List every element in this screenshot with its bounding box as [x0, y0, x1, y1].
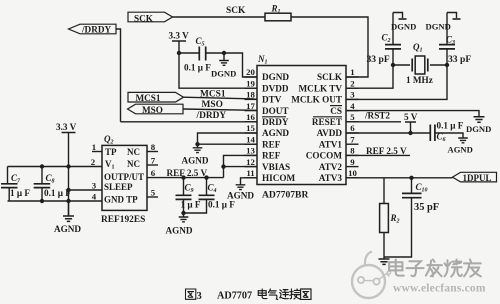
svg-text:0.1 μ F: 0.1 μ F [208, 200, 235, 210]
capacitor C8 0.1uF [34, 167, 72, 202]
pin 15 stub (left) [245, 132, 258, 134]
resistor R2 [380, 178, 400, 257]
svg-text:4: 4 [92, 192, 97, 202]
resistor R1 [265, 4, 291, 21]
capacitor C3 33pF [439, 13, 471, 66]
svg-text:16: 16 [246, 112, 255, 122]
svg-text:8: 8 [350, 146, 355, 156]
watermark logo [352, 252, 391, 299]
svg-text:18: 18 [246, 90, 255, 100]
node junction C4 top [204, 175, 208, 179]
node junction pins14/15 [195, 142, 199, 146]
svg-text:19: 19 [246, 78, 255, 88]
wire to pin20 DGND [224, 53, 257, 77]
svg-text:OUTP/UT: OUTP/UT [104, 172, 144, 182]
svg-text:10: 10 [348, 168, 357, 178]
svg-text:AGND: AGND [448, 145, 473, 155]
pin 20 stub (left) [245, 76, 258, 78]
svg-text:/DRDY: /DRDY [196, 111, 227, 121]
svg-text:6: 6 [350, 123, 355, 133]
svg-text:13: 13 [246, 146, 255, 156]
svg-text:1: 1 [92, 142, 96, 152]
svg-text:MCLK TV: MCLK TV [299, 83, 343, 93]
svg-text:SLEEP: SLEEP [104, 182, 133, 192]
ground hook DGND (right) [426, 13, 461, 32]
capacitor C2 33pF [367, 13, 402, 66]
svg-text:0.1 μ F: 0.1 μ F [184, 63, 211, 73]
ground AGND (left) [54, 201, 81, 234]
capacitor C7 1uF [1, 167, 30, 202]
svg-text:REF 2.5 V: REF 2.5 V [366, 146, 407, 156]
pin labels REF192ES [104, 147, 144, 205]
svg-text:3: 3 [92, 181, 97, 191]
svg-text:AGND: AGND [262, 128, 289, 138]
svg-text:2: 2 [350, 78, 355, 88]
wire pin10 ATV3 to flag [347, 177, 453, 179]
pin 18 stub (left) [245, 98, 258, 100]
svg-text:COCOM: COCOM [306, 151, 343, 161]
ground AGND (REF rail) [166, 213, 193, 236]
ground AGND (HICOM) [227, 185, 254, 201]
svg-text:NC: NC [127, 147, 140, 157]
svg-text:3: 3 [197, 291, 202, 302]
pin 3 stub (right) [346, 98, 359, 100]
wire /DRDY to pin16 [121, 121, 258, 123]
svg-text:7: 7 [151, 156, 156, 166]
svg-text:1: 1 [350, 67, 354, 77]
pin 6 wire OUTPUT [147, 177, 224, 179]
svg-text:TP: TP [105, 147, 117, 157]
ground hook DGND (left) [391, 13, 416, 32]
svg-text:7: 7 [350, 134, 355, 144]
svg-text:5 V: 5 V [404, 112, 418, 122]
net flag SCK (top) [128, 12, 173, 23]
svg-text:DGND: DGND [466, 124, 491, 134]
svg-text:AGND: AGND [182, 156, 209, 166]
ground (R2/C10) [379, 257, 390, 264]
node junction GND rail [66, 199, 70, 203]
wire pin6 AVDD [347, 132, 431, 134]
svg-text:RESET: RESET [312, 117, 342, 127]
svg-text:MSO: MSO [202, 100, 223, 110]
svg-text:AVDD: AVDD [317, 128, 343, 138]
svg-text:DVDD: DVDD [262, 83, 289, 93]
crystal Q1 1MHz [393, 42, 447, 85]
net flag /DRDY (top left) [69, 24, 117, 34]
svg-text:11: 11 [246, 168, 254, 178]
capacitor C4 0.1uF [184, 178, 236, 213]
svg-text:MCLK OUT: MCLK OUT [291, 95, 342, 105]
svg-text:35 pF: 35 pF [414, 202, 439, 213]
svg-text:HICOM: HICOM [262, 173, 296, 183]
svg-text:20: 20 [246, 67, 255, 77]
svg-text:12: 12 [246, 157, 255, 167]
wire /DRDY flag to pin16 [116, 29, 121, 122]
wire pin3 MCLK OUT to crystal [347, 65, 448, 99]
IC Q2 REF192ES box [101, 134, 147, 225]
svg-text:DOUT: DOUT [262, 106, 289, 116]
svg-text:DGND: DGND [391, 22, 416, 32]
node junction C10 [409, 176, 413, 180]
caption 图3 AD7707 电气连接图 [186, 289, 196, 299]
node junction C8 bottom [40, 199, 44, 203]
ground DGND (CS) [466, 117, 491, 134]
svg-text:VBIAS: VBIAS [262, 162, 290, 172]
node junction C8 top [40, 164, 44, 168]
wire pin4 CS to ground [347, 111, 480, 117]
pin 10 stub (right) [346, 177, 359, 179]
pin 1 stub TP [92, 151, 102, 153]
wire R1 to pin1 SCLK [291, 17, 368, 77]
node junction VBIAS/REF [221, 164, 225, 168]
wire 3.3V to pin19 DVDD [179, 53, 257, 88]
svg-text:DGND: DGND [262, 72, 289, 82]
svg-text:0.1 μ F: 0.1 μ F [437, 121, 464, 131]
wire pin12 VBIAS [224, 166, 258, 168]
svg-text:3.3 V: 3.3 V [169, 31, 190, 41]
node junction C9 top [181, 175, 185, 179]
svg-text:MCS1: MCS1 [136, 93, 161, 103]
pin 9 stub (right) [346, 166, 359, 168]
capacitor C5 [179, 36, 224, 73]
svg-text:REF: REF [262, 139, 281, 149]
ground AGND (pins14/15) [182, 144, 209, 165]
pin 2 stub (right) [346, 87, 359, 89]
pin 2 wire V+ rail [8, 166, 103, 168]
power 3.3V (top) [169, 31, 190, 54]
svg-text:9: 9 [350, 157, 355, 167]
svg-text:17: 17 [246, 101, 255, 111]
watermark text 电子发烧友 [389, 260, 481, 277]
svg-text:REF: REF [262, 151, 281, 161]
svg-text:MCS1: MCS1 [200, 89, 226, 99]
node junction crystal right [445, 63, 449, 67]
svg-text:CS: CS [330, 106, 342, 116]
power 3.3V (left) [56, 122, 77, 216]
svg-text:15: 15 [246, 123, 255, 133]
svg-text:www.elecfans.com: www.elecfans.com [393, 283, 486, 295]
pin 1 stub (right) [346, 76, 359, 78]
wire C6 to AGND [435, 133, 463, 138]
pin 5 stub TP [147, 196, 158, 198]
svg-text:DRDY: DRDY [262, 117, 289, 127]
wire pin13 REF to 2.5V rail [224, 155, 258, 177]
pin 13 stub (left) [245, 154, 258, 156]
wire pin15 AGND [198, 133, 258, 144]
pin 4 wire GND rail [8, 200, 103, 202]
svg-text:SCK: SCK [226, 6, 246, 16]
svg-text:SCK: SCK [134, 13, 154, 23]
pin 19 stub (left) [245, 87, 258, 89]
capacitor C9 1uF [176, 178, 201, 213]
svg-text:GND TP: GND TP [104, 195, 138, 205]
svg-text:SCLK: SCLK [317, 72, 343, 82]
wire MCS1 to pin18 [184, 97, 258, 99]
op IC U/N1 AD7707BR box [257, 54, 346, 201]
pin 16 stub (left) [245, 121, 258, 123]
wire MSO to pin17 [183, 109, 257, 110]
net flag 1DPUL [453, 172, 497, 183]
pin 4 stub (right) [346, 110, 359, 112]
pin 6 stub (right) [346, 132, 359, 134]
svg-text:/DRDY: /DRDY [81, 25, 111, 35]
wire pin14 REF [198, 143, 258, 145]
svg-text:1 MHz: 1 MHz [406, 75, 433, 85]
svg-text:0.1 μ F: 0.1 μ F [44, 188, 71, 198]
pin 3 wire SLEEP [69, 189, 103, 191]
svg-text:8: 8 [151, 142, 156, 152]
svg-text:1DPUL: 1DPUL [463, 173, 492, 183]
pin 7 stub NC [147, 164, 158, 166]
net flag MSO [128, 104, 184, 115]
pin 12 stub (left) [245, 166, 258, 168]
svg-text:REF192ES: REF192ES [101, 215, 145, 225]
capacitor C6 0.1uF [430, 121, 463, 143]
svg-text:33 pF: 33 pF [448, 54, 471, 65]
wire SCK to R1 [173, 16, 266, 18]
svg-text:14: 14 [246, 134, 255, 144]
node junction SLEEP [66, 188, 70, 192]
svg-text:6: 6 [151, 168, 156, 178]
node junction C9/C4 bottom [181, 211, 185, 215]
wire pin11 HICOM to AGND [241, 178, 258, 185]
svg-text:2: 2 [91, 157, 96, 167]
pin 17 stub (left) [245, 110, 258, 112]
capacitor C10 35pF [384, 178, 439, 257]
svg-text:AD7707BR: AD7707BR [262, 190, 309, 201]
pin 5 stub (right) [346, 121, 359, 123]
svg-text:3.3 V: 3.3 V [56, 122, 77, 132]
svg-text:33 pF: 33 pF [367, 54, 390, 65]
svg-text:MSO: MSO [142, 105, 163, 115]
svg-text:DTV: DTV [262, 95, 282, 105]
ground AGND (AVDD) [448, 138, 473, 155]
ground DGND (under C5) [211, 53, 236, 79]
pin 7 stub (right) [346, 143, 359, 145]
svg-text:ATV2: ATV2 [319, 162, 343, 172]
svg-text:AGND: AGND [166, 226, 193, 236]
power 5V [404, 112, 418, 135]
svg-text:ATV3: ATV3 [319, 173, 343, 183]
svg-text:4: 4 [350, 101, 355, 111]
svg-text:1 μ F: 1 μ F [10, 188, 30, 198]
node junction crystal left [391, 63, 395, 67]
svg-text:/RST2: /RST2 [364, 111, 390, 121]
pin 11 stub (left) [245, 177, 258, 179]
svg-text:AD7707: AD7707 [217, 291, 252, 302]
svg-text:AGND: AGND [54, 224, 81, 234]
svg-text:5: 5 [350, 112, 355, 122]
node junction 3.3V/V+ rail [66, 164, 70, 168]
svg-text:NC: NC [127, 159, 140, 169]
pin 8 stub (right) [346, 154, 359, 156]
pin 8 stub NC [147, 151, 158, 153]
pin 14 stub (left) [245, 143, 258, 145]
wire pin2 MCLK TV to crystal [347, 65, 394, 88]
wire pin8 COCOM REF 2.5V [347, 154, 411, 156]
svg-text:3: 3 [350, 90, 355, 100]
svg-text:DGND: DGND [426, 22, 451, 32]
svg-text:ATV1: ATV1 [319, 139, 343, 149]
node junction C5/DGND [222, 51, 226, 55]
svg-text:REF 2.5 V: REF 2.5 V [167, 168, 208, 178]
net flag MCS1 [128, 92, 184, 103]
node junction 3.3V/C5 [177, 51, 181, 55]
svg-text:5: 5 [151, 188, 156, 198]
svg-text:DGND: DGND [211, 69, 236, 79]
wire pin5 RESET /RST2 [347, 121, 402, 123]
